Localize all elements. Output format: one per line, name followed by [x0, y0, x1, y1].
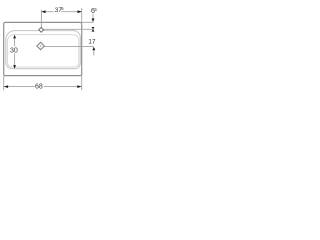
svg-text:30: 30	[10, 48, 18, 55]
svg-text:68: 68	[35, 83, 43, 90]
svg-text:17: 17	[88, 38, 96, 45]
